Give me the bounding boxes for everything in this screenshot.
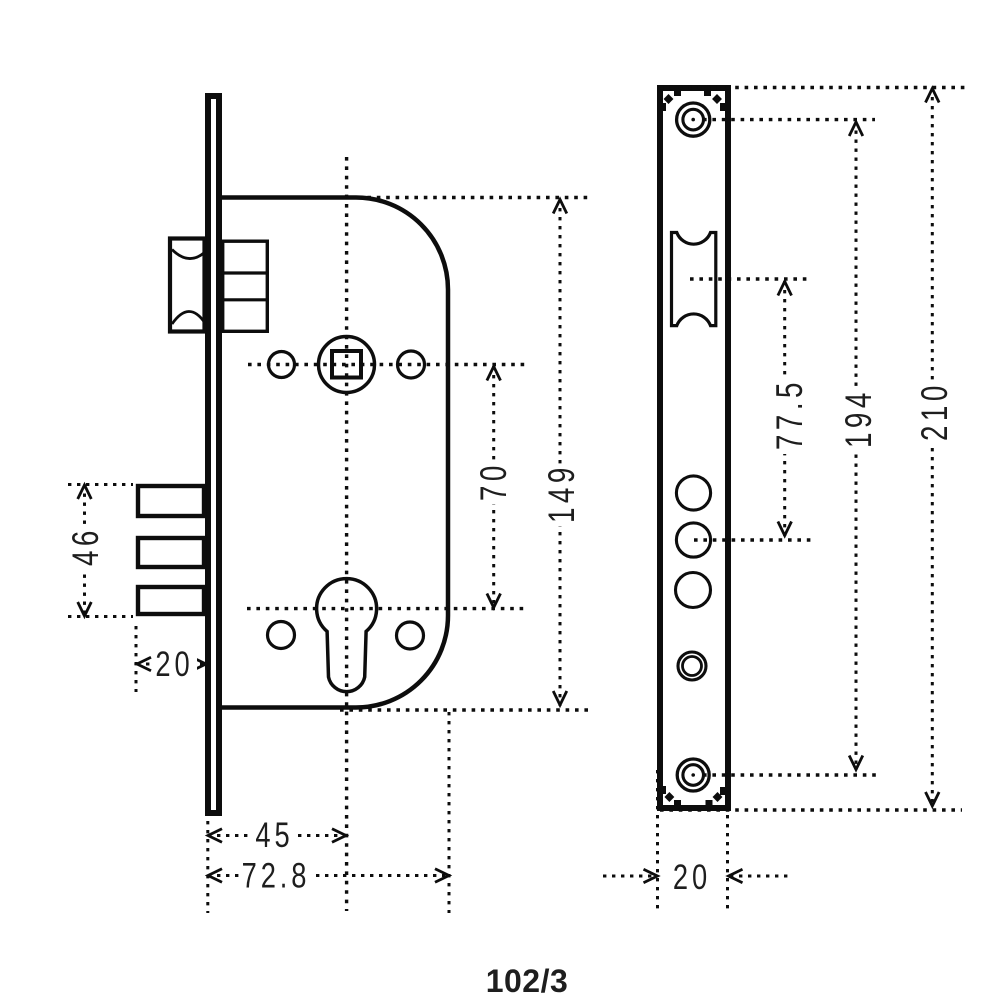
dimension 149 line: [559, 199, 562, 706]
dimension 45 arrow right: [332, 829, 346, 843]
dimension 70 line: [492, 366, 495, 608]
dimension 72.8 arrow left: [208, 869, 222, 883]
dimension 194 label: [842, 389, 873, 452]
svg-text:102/3: 102/3: [486, 963, 569, 999]
plate hole 3: [676, 573, 711, 608]
svg-text:149: 149: [540, 463, 582, 523]
dimension 77.5 line: [783, 281, 786, 536]
dimension 194 arrow down: [849, 756, 863, 770]
screw hole left of cylinder: [268, 622, 295, 649]
centerline cylinder horizontal: [247, 607, 526, 610]
dimension 72.8 line: [208, 874, 449, 877]
extension body top: [358, 196, 592, 199]
euro cylinder profile: [317, 579, 377, 692]
dimension 20 (plate) line left: [603, 875, 657, 878]
plate top screw: [677, 103, 710, 136]
screw hole right of cylinder: [397, 622, 424, 649]
dimension 77.5 arrow up: [778, 282, 792, 296]
dimension 70 label: [478, 462, 508, 504]
dimension 20 (plate) line right: [730, 875, 792, 878]
dimension 210 arrow down: [926, 792, 940, 806]
svg-text:20: 20: [673, 858, 711, 897]
latch bolt face: [170, 239, 205, 332]
svg-text:20: 20: [155, 645, 193, 684]
svg-text:210: 210: [913, 381, 955, 441]
extension top screw: [703, 118, 875, 121]
plate hole 1: [676, 476, 710, 510]
dimension 70 arrow down: [487, 594, 501, 608]
extension roller center: [690, 277, 812, 280]
latch face top arc: [172, 250, 205, 259]
latch body divider 2: [221, 298, 267, 301]
dimension 20 (plate) extension left: [656, 770, 659, 913]
centerline vertical (lock axis): [345, 157, 348, 911]
extension middle hole: [694, 538, 815, 541]
extension body bottom: [340, 708, 592, 711]
latch roller (front view): [672, 233, 716, 326]
dimension 20 (plate) arrow left-pointing: [729, 869, 743, 883]
plate hole 2: [676, 523, 710, 557]
screw hole left of hub: [269, 352, 295, 378]
hub circle: [319, 337, 375, 393]
dimension 46 extension bottom: [68, 615, 133, 618]
dimension 210 label: [918, 382, 949, 445]
dimension 46 extension top: [68, 483, 133, 486]
dimension 46 arrow up: [78, 485, 92, 499]
svg-text:45: 45: [255, 816, 293, 855]
centerline hub horizontal: [248, 363, 526, 366]
extension bottom screw: [703, 773, 878, 776]
dimension 20 (plate) label: [670, 859, 715, 895]
plate bottom screw: [677, 759, 709, 791]
dimension 72.8 label: [240, 858, 313, 894]
latch face bottom arc: [172, 311, 205, 324]
dimension 77.5 label: [773, 380, 804, 454]
dimension 149 arrow up: [553, 200, 567, 214]
dimension 20 arrow left: [137, 657, 151, 671]
deadbolt bar 2: [138, 538, 204, 567]
screw hole right of hub: [398, 351, 425, 378]
deadbolt bar 3: [138, 587, 204, 614]
dimension 149 label: [545, 464, 576, 526]
hub square: [332, 351, 361, 378]
deadbolt bar 1: [138, 486, 204, 516]
dimension 194 arrow up: [849, 122, 863, 136]
strike plate (front view): [660, 88, 728, 808]
dimension 72.8 arrow right: [435, 869, 449, 883]
dimension 45 arrow left: [208, 829, 222, 843]
svg-text:72.8: 72.8: [242, 856, 311, 895]
dimension 149 arrow down: [553, 691, 567, 705]
dimension 46 arrow down: [78, 602, 92, 616]
extension plate bottom: [660, 808, 962, 811]
dimension 46 vertical line: [83, 485, 86, 617]
dimension 70 arrow up: [487, 367, 501, 381]
dimension 45 line: [208, 834, 346, 837]
dimension 210 arrow up: [926, 89, 940, 103]
dimension 20 (plate) arrow right-pointing: [644, 869, 658, 883]
svg-text:77.5: 77.5: [768, 378, 810, 450]
dimension 210 line: [931, 88, 934, 807]
dimension 46 label: [72, 524, 101, 572]
dimension 194 line: [855, 122, 858, 771]
dimension 20 label: [153, 646, 197, 682]
dimension 20 (deadbolt) line: [137, 663, 206, 666]
latch body: [223, 241, 268, 331]
dimension 20 (plate) extension right: [726, 770, 729, 913]
dimension 20 arrow right: [192, 657, 206, 671]
plate top decor dots: [660, 90, 726, 111]
svg-text:194: 194: [837, 388, 879, 448]
plate bottom decor dots: [660, 786, 726, 806]
latch body divider 1: [221, 271, 267, 274]
lock body: [222, 198, 448, 708]
dimension 20 extension: [135, 626, 138, 692]
dimension 77.5 arrow down: [778, 522, 792, 536]
svg-text:46: 46: [64, 526, 106, 566]
faceplate (side view): [208, 96, 219, 813]
extension line faceplate bottom left: [206, 821, 209, 913]
extension plate top: [660, 86, 968, 89]
svg-text:70: 70: [472, 461, 514, 501]
extension line body right bottom: [448, 712, 451, 913]
plate cylinder screw: [678, 652, 706, 680]
dimension 45 label: [252, 817, 298, 853]
